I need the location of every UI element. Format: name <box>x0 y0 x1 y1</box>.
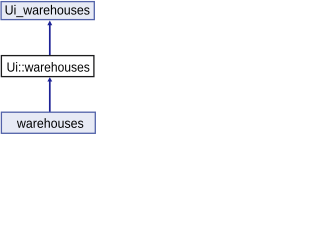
background <box>0 0 98 136</box>
class box Ui::warehouses <box>1 56 94 77</box>
class box Ui_warehouses <box>1 2 94 20</box>
inheritance arrow from Ui::warehouses to Ui_warehouses <box>47 21 52 57</box>
inheritance arrow from warehouses to Ui::warehouses <box>47 77 52 113</box>
class box warehouses <box>1 112 95 133</box>
